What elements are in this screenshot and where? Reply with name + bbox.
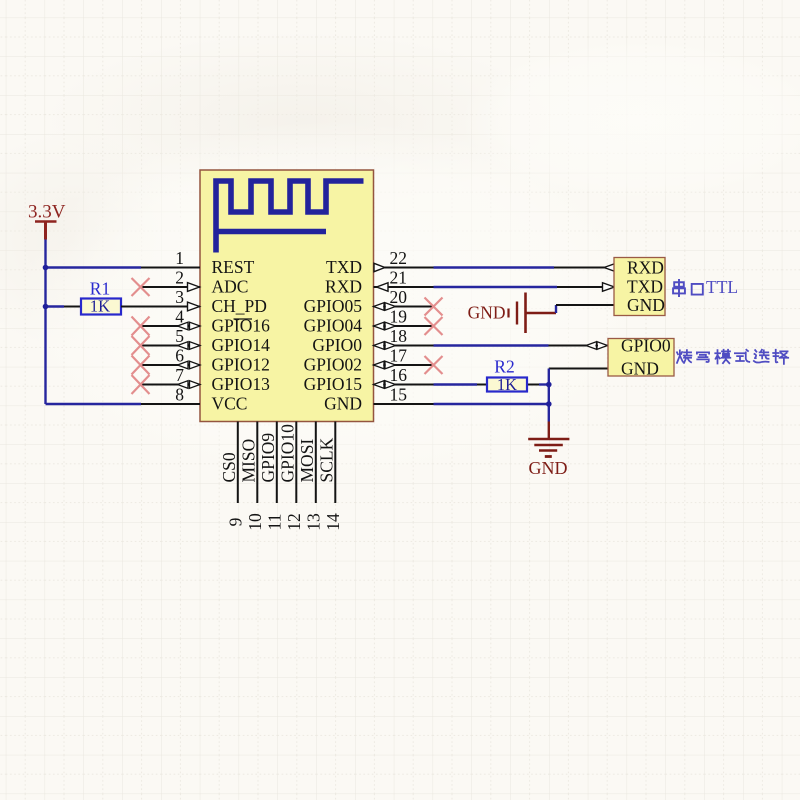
resistor R2: [477, 357, 539, 395]
svg-text:GND: GND: [324, 394, 362, 414]
svg-text:2: 2: [175, 268, 184, 288]
pin 5 GPIO14: [141, 326, 270, 355]
pin 16 GPIO15: [304, 365, 434, 394]
svg-text:GPIO05: GPIO05: [304, 296, 363, 316]
label 串口TTL: [673, 280, 703, 296]
no-connect X pin7: [132, 375, 150, 394]
svg-text:VCC: VCC: [212, 394, 248, 414]
svg-text:ADC: ADC: [212, 277, 249, 297]
no-connect X pin19: [425, 317, 443, 335]
svg-text:9: 9: [225, 517, 245, 526]
svg-text:20: 20: [390, 287, 408, 307]
junction GND node: [546, 401, 552, 407]
svg-text:GPIO10: GPIO10: [277, 424, 297, 483]
svg-text:12: 12: [284, 513, 304, 531]
pin 18 GPIO0: [312, 326, 433, 355]
svg-text:15: 15: [390, 385, 408, 405]
no-connect X pin20: [425, 298, 443, 316]
svg-text:R1: R1: [90, 279, 110, 299]
pin 15 GND: [324, 385, 433, 414]
pin 20 GPIO05: [304, 287, 434, 316]
svg-text:MOSI: MOSI: [297, 439, 317, 483]
pin 10 MISO: [238, 422, 264, 531]
connector P1 serial TTL: [554, 258, 665, 316]
svg-text:CH_PD: CH_PD: [212, 296, 267, 316]
wire GND1 stub: [555, 305, 557, 313]
pin 3 CH_PD: [121, 287, 267, 316]
no-connect X pin5: [132, 336, 150, 355]
svg-text:REST: REST: [212, 257, 255, 277]
svg-text:21: 21: [390, 268, 408, 288]
wire pin18 to GPIO0: [434, 344, 549, 346]
svg-text:7: 7: [175, 365, 184, 385]
pin 19 GPIO04: [304, 307, 434, 336]
svg-text:SCLK: SCLK: [316, 437, 336, 482]
svg-text:GPIO13: GPIO13: [212, 374, 271, 394]
svg-text:1K: 1K: [497, 375, 517, 394]
wire pin21 to TXD: [434, 286, 558, 288]
svg-text:14: 14: [323, 513, 343, 531]
svg-text:R2: R2: [494, 357, 514, 377]
wire 3.3V rail vertical: [44, 240, 46, 405]
svg-text:GPIO15: GPIO15: [304, 374, 363, 394]
svg-text:6: 6: [175, 346, 184, 366]
wire pin15 GND: [434, 403, 549, 405]
svg-text:1: 1: [175, 248, 184, 268]
wire pin16 to R2: [434, 383, 478, 385]
svg-text:22: 22: [390, 248, 408, 268]
svg-text:GPIO14: GPIO14: [212, 335, 271, 355]
svg-text:RXD: RXD: [627, 258, 664, 278]
svg-text:GPIO12: GPIO12: [212, 355, 270, 375]
IC U1 ESP8266 body: [200, 170, 374, 422]
pin 22 TXD: [326, 248, 433, 277]
pin 14 SCLK: [316, 422, 343, 531]
no-connect X pin2: [132, 278, 150, 296]
svg-text:GND: GND: [468, 303, 506, 323]
power port GND1: [468, 293, 556, 334]
pin 4 GPIO16: [141, 307, 270, 336]
wire to R1: [46, 305, 65, 307]
svg-text:19: 19: [390, 307, 408, 327]
power port 3.3V: [28, 202, 66, 240]
junction R2 node: [546, 382, 552, 388]
svg-text:3.3V: 3.3V: [28, 202, 66, 223]
svg-text:TXD: TXD: [326, 257, 362, 277]
pin 9 CS0: [219, 422, 246, 527]
svg-text:4: 4: [175, 307, 184, 327]
svg-text:5: 5: [175, 326, 184, 346]
svg-text:TXD: TXD: [627, 277, 663, 297]
svg-text:CS0: CS0: [219, 452, 239, 482]
svg-text:GND: GND: [621, 359, 659, 379]
svg-text:13: 13: [303, 513, 323, 531]
pin 17 GPIO02: [304, 346, 434, 375]
svg-text:RXD: RXD: [325, 277, 362, 297]
pin 7 GPIO13: [141, 365, 270, 394]
wire VCC bottom: [46, 403, 142, 405]
connector P2 burn mode: [549, 336, 675, 379]
svg-text:TTL: TTL: [706, 277, 738, 297]
svg-text:1K: 1K: [90, 297, 110, 316]
pin 6 GPIO12: [141, 346, 270, 375]
svg-text:10: 10: [245, 513, 265, 531]
no-connect X pin4: [132, 317, 150, 336]
wire vertical node: [548, 369, 550, 422]
svg-text:MISO: MISO: [238, 439, 258, 483]
resistor R1: [64, 279, 141, 316]
pin 13 MOSI: [297, 422, 324, 531]
pin 11 GPIO9: [258, 422, 285, 531]
svg-text:16: 16: [390, 365, 408, 385]
pin 21 RXD: [325, 268, 433, 297]
pin 2 ADC: [141, 268, 248, 297]
svg-text:GPIO02: GPIO02: [304, 355, 362, 375]
no-connect X pin17: [425, 356, 443, 374]
svg-text:11: 11: [264, 514, 284, 531]
svg-text:GPIO0: GPIO0: [312, 335, 362, 355]
label 烧写模式选择: [677, 350, 788, 364]
pin 8 VCC: [141, 385, 247, 414]
wire pin22 to RXD: [434, 266, 555, 268]
svg-text:GND: GND: [529, 458, 568, 478]
svg-text:GPIO04: GPIO04: [304, 316, 363, 336]
junction at R1 row: [43, 304, 49, 310]
no-connect X pin6: [132, 356, 150, 375]
antenna trace: [216, 181, 364, 253]
ground symbol: [528, 422, 569, 457]
svg-text:8: 8: [175, 385, 184, 405]
svg-text:17: 17: [390, 346, 408, 366]
svg-text:GND: GND: [627, 295, 665, 315]
svg-text:GPIO0: GPIO0: [621, 336, 671, 356]
wire R2 to node: [539, 383, 549, 385]
svg-text:18: 18: [390, 326, 408, 346]
pin 1 REST: [141, 248, 255, 277]
wire pin1 REST: [46, 266, 142, 268]
pin 12 GPIO10: [277, 422, 304, 531]
svg-text:GPIO9: GPIO9: [258, 433, 278, 483]
junction at pin1: [43, 265, 49, 271]
svg-text:3: 3: [175, 287, 184, 307]
